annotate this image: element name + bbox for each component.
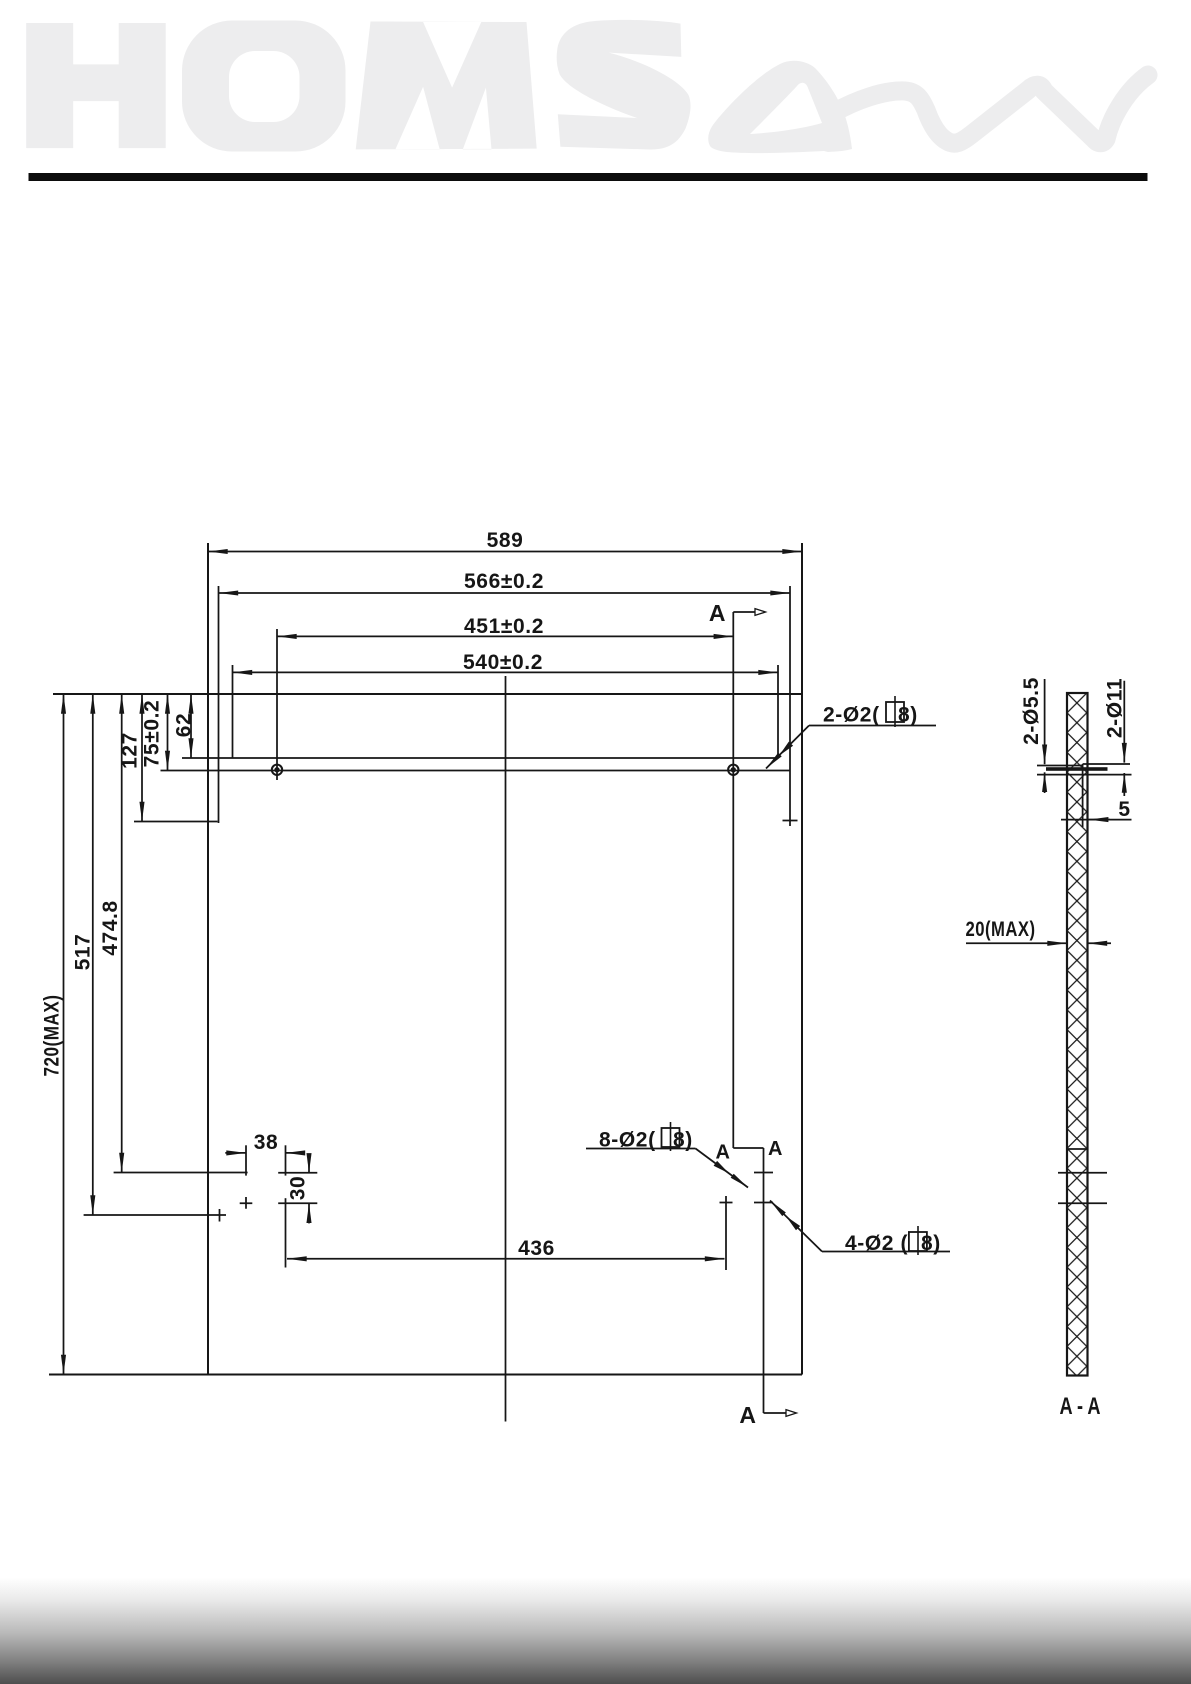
side view hole line y1172 [1058,1172,1107,1174]
panel left edge [207,543,209,1375]
svg-text:436: 436 [518,1237,555,1260]
slot bottom edge [161,770,791,772]
svg-text:589: 589 [487,529,524,552]
logo letter H [26,23,166,148]
leader 4-O2 mid arrowhead [786,1216,800,1230]
cross at 219,1215 [219,1209,221,1222]
leader 8-O2 underline [586,1148,696,1150]
svg-text:A: A [739,1402,756,1428]
logo underline rule [29,173,1148,181]
lower-left hole cross at 246,1203 [240,1197,253,1209]
svg-text:2-Ø11: 2-Ø11 [1104,678,1127,738]
svg-text:8): 8) [673,1129,693,1152]
svg-text:20(MAX): 20(MAX) [966,918,1036,941]
dimension 451 extension left [276,629,278,780]
dimension 20MAX line left [966,942,1067,944]
svg-text:474.8: 474.8 [99,900,122,956]
svg-text:38: 38 [254,1131,279,1154]
slot top edge [182,757,778,759]
dimension 566 right end cross [783,820,798,822]
bottom gradient bar [0,1578,1191,1684]
dimension 20MAX line right [1088,942,1112,944]
svg-text:451±0.2: 451±0.2 [464,615,544,638]
side view slot line top left [1037,765,1083,767]
side view slot thick line [1046,767,1108,771]
svg-text:8-Ø2(: 8-Ø2( [599,1129,656,1152]
dimension 2-O11 leader [1123,681,1125,763]
logo letter S [557,20,691,150]
svg-text:127: 127 [119,732,142,769]
lower-left hole tick y1173 [278,1172,317,1174]
leader 4-O2 diagonal [770,1201,822,1252]
side view slot line top right [1083,763,1130,765]
dimension 436 tick right [725,1196,727,1270]
dimension 436 tick left [285,1198,287,1267]
right hole tick y1172 [754,1172,773,1174]
leader 8-O2 mid arrowhead [714,1161,729,1174]
panel vertical centerline [505,676,507,1422]
feature line y1215 for dim 517 [84,1214,226,1216]
lower-left hole tick y1203 [278,1202,317,1204]
panel bottom edge with left extension [49,1374,802,1376]
section line jog [733,1147,763,1149]
svg-text:517: 517 [72,934,95,971]
logo script air letter a [708,61,852,153]
leader 4-O2 underline [822,1251,950,1253]
dimension 566 line [219,592,791,594]
side view hole line y1203 [1058,1202,1107,1204]
side view counterbore depth line [1082,764,1084,827]
feature line y821 for dim 127 [134,821,218,823]
svg-text:75±0.2: 75±0.2 [141,700,164,768]
dimension 62 line [190,694,192,758]
dimension 474.8 line [121,694,123,1173]
svg-text:2-Ø2(: 2-Ø2( [823,704,880,727]
lower-left hole tick x285 [285,1145,287,1175]
svg-text:A: A [768,1138,783,1160]
section arrow top [733,611,755,613]
dimension 540 extension left [232,665,234,758]
slot hole left [272,765,282,775]
svg-text:A: A [715,1142,730,1164]
right hole tick y1202 [754,1202,773,1204]
side view slot line bottom [1037,774,1132,776]
section line A vertical lower [763,1148,765,1413]
dimension 540 extension right [777,665,779,756]
slot hole right [728,765,738,775]
dimension 566 extension right [789,586,791,826]
side view bar hatch [1067,693,1088,1376]
svg-text:566±0.2: 566±0.2 [464,570,544,593]
svg-text:2-Ø5.5: 2-Ø5.5 [1020,677,1043,745]
svg-text:30: 30 [287,1176,310,1201]
leader 2-O2 diagonal [766,732,803,769]
feature line y1172 for dim 474.8 [114,1172,248,1174]
dimension 75 line [167,694,169,771]
dimension 720MAX line [63,694,65,1375]
leader 2-O2 mid arrowhead [779,742,793,756]
dimension 517 line [92,694,94,1215]
svg-text:8): 8) [898,704,918,727]
section line A vertical upper [732,612,734,1148]
svg-text:4-Ø2 (: 4-Ø2 ( [845,1232,908,1255]
dimension 38 arrows [225,1152,246,1154]
logo script air stroke [833,75,1148,143]
logo letter O [182,21,346,152]
dimension 436 line [287,1258,725,1260]
lower-left hole tick x246 [245,1145,247,1175]
svg-text:8): 8) [921,1232,941,1255]
dimension 566 extension left [218,586,220,823]
section arrow bottom [764,1412,787,1414]
logo HOMSair [0,0,1191,200]
panel top edge with left extension [53,693,802,695]
svg-text:540±0.2: 540±0.2 [463,651,543,674]
leader 2-O2 underline [803,726,936,732]
dimension 2-O5.5 leader [1044,679,1046,764]
dimension 451 line [277,635,733,637]
svg-text:A - A: A - A [1060,1393,1101,1420]
logo letter M [356,22,537,150]
svg-text:720(MAX): 720(MAX) [41,995,64,1077]
leader 8-O2 diagonal [696,1149,749,1188]
dimension 30 arrows [308,1154,310,1173]
dimension 540 line [233,671,779,673]
svg-text:62: 62 [173,713,196,738]
panel right edge [801,543,803,1375]
dimension 589 line [208,551,802,553]
dimension 127 line [141,694,143,822]
cross at 726,1202 [720,1202,733,1204]
svg-text:5: 5 [1118,798,1130,821]
dimension 5 line [1061,819,1132,821]
side view hole line y1149 [1067,1148,1088,1150]
svg-text:A: A [709,600,726,626]
side view bar outline [1067,693,1088,1376]
